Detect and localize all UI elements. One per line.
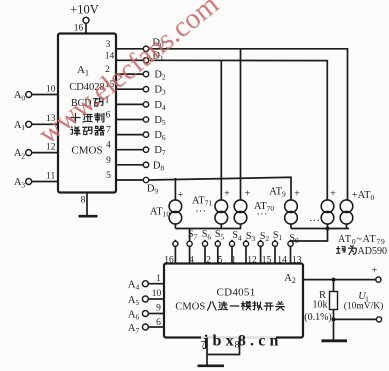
svg-text:10k: 10k (313, 300, 328, 311)
output D0 pin 3 of A1 (106, 38, 164, 52)
svg-text:9: 9 (106, 156, 111, 166)
sensor column 5 AD590 (321, 200, 334, 229)
output D1 pin 14 of A1 (105, 51, 164, 64)
svg-text:···: ··· (257, 209, 268, 221)
svg-text:+: + (294, 189, 300, 200)
junction at lower output (332, 317, 336, 321)
svg-text:16: 16 (74, 24, 84, 34)
svg-text:1: 1 (156, 274, 161, 284)
resistor R 10k 0.1% (304, 280, 337, 340)
ground below resistor (322, 339, 348, 342)
terminal S4 pin 1 of A2 (229, 230, 242, 265)
svg-text:jbx8.cn: jbx8.cn (202, 333, 283, 350)
svg-text:10: 10 (46, 84, 56, 94)
output D8 pin 9 of A1 (106, 156, 164, 173)
svg-text:+: + (330, 189, 336, 200)
output D2 pin 2 of A1 (105, 65, 166, 82)
plus marks of sensors (178, 189, 337, 202)
output terminal + (372, 266, 381, 283)
wire D0 branch to column 3 (240, 49, 242, 200)
svg-text:14: 14 (105, 51, 115, 61)
terminal S0 pin 13 of A2 (288, 233, 302, 265)
ground pins 7,8 of A2 (198, 338, 240, 366)
label shi-jin-zhi (decimal) (71, 113, 104, 122)
input terminal A2 pin 12 (14, 143, 58, 161)
input terminal A6 pin 9 of A2 (128, 304, 164, 322)
input terminal A0 pin 10 (14, 84, 58, 102)
svg-text:5: 5 (106, 171, 111, 181)
sensor AT71 (column 2) AD590 (215, 200, 228, 229)
sensor AT9 (column 4) AD590 (285, 200, 298, 229)
IC A2 CD4051 analog multiplexer (164, 264, 303, 338)
svg-text:CMOS: CMOS (71, 145, 102, 157)
svg-text:3: 3 (106, 40, 111, 50)
terminal S2 pin 15 of A2 (258, 231, 272, 265)
svg-text:4: 4 (106, 141, 111, 151)
svg-text:10: 10 (152, 289, 162, 299)
ground of A1 pin 8 (79, 193, 98, 217)
svg-text:···: ··· (195, 206, 206, 218)
terminal S7 pin 4 of A2 (187, 229, 197, 266)
svg-text:6: 6 (156, 318, 161, 328)
label BCD code (BCD ma) (71, 98, 103, 109)
wire D1 branch to column 2 (220, 61, 222, 200)
svg-text:(0.1%): (0.1%) (304, 312, 332, 323)
svg-text:+: + (224, 189, 230, 200)
label ba-xuan-yi-mo-ni-kai-guan (8ch analog switch) (208, 301, 285, 310)
+10V supply terminal (70, 3, 99, 34)
terminal VDD pin 16 of A2 (164, 240, 178, 265)
svg-text:+: + (372, 266, 378, 277)
svg-text:+10V: +10V (70, 3, 99, 17)
wire from right bus to S0 (291, 229, 328, 242)
input terminal A5 pin 10 of A2 (128, 289, 164, 307)
terminal S5 pin 5 of A2 (215, 229, 225, 265)
svg-text:+: + (178, 190, 184, 201)
svg-text:(10mV/K): (10mV/K) (344, 301, 384, 312)
sensor AT10 (column 1) AD590 (169, 200, 182, 229)
svg-text:CD4051: CD4051 (216, 287, 255, 299)
svg-text:8: 8 (235, 341, 240, 351)
sensor AT0 (column 6) AD590 (340, 200, 353, 229)
terminal S3 pin 12 of A2 (243, 231, 257, 265)
output D7 pin 4 of A1 (106, 141, 166, 158)
svg-text:AD590: AD590 (358, 246, 387, 257)
input terminal A1 pin 13 (14, 114, 58, 132)
svg-text:8: 8 (81, 196, 86, 206)
output D9 pin 5 of A1 (106, 171, 158, 196)
junction at resistor top (332, 278, 336, 282)
IC A1 CD4028 BCD decoder (58, 34, 116, 193)
wire D9 to sensor row (149, 177, 291, 200)
sensor AT70 (column 3) AD590 (234, 200, 247, 229)
input terminal A3 pin 11 (14, 172, 58, 190)
svg-text:7: 7 (106, 126, 111, 136)
label yi-ma-qi (decoder) (71, 126, 104, 135)
output wire of A2 (303, 279, 376, 281)
wire D1 bus to sensor columns (150, 60, 327, 200)
lower output wire (334, 318, 377, 320)
svg-text:9: 9 (156, 304, 161, 314)
decorative watermark (not labeled as circuit) (32, 0, 225, 150)
wire D9 branch to column 1 (174, 178, 176, 200)
svg-text:11: 11 (46, 172, 55, 182)
right sensor bus (291, 228, 349, 230)
svg-text:7: 7 (201, 341, 206, 351)
left sensor bus (175, 228, 241, 230)
note AT0~AT79 are AD590 (336, 234, 387, 257)
lower output terminal (376, 317, 381, 322)
output D5 pin 6 of A1 (106, 111, 166, 128)
svg-text:+: + (245, 189, 251, 200)
svg-text:CMOS: CMOS (175, 302, 205, 313)
label U1 (10mV/K) (344, 291, 384, 312)
svg-text:6: 6 (106, 111, 111, 121)
input terminal A4 pin 1 of A2 (128, 274, 164, 292)
terminal S6 pin 2 of A2 (202, 229, 212, 265)
watermark text jbx8.cn (201, 334, 276, 346)
output D3 pin 15 of A1 (105, 80, 166, 97)
svg-text:···: ··· (309, 215, 320, 227)
wire D0 bus to sensor columns (149, 49, 348, 200)
input terminal A7 pin 6 of A2 (128, 318, 164, 335)
output D6 pin 7 of A1 (106, 126, 166, 143)
output D4 pin 1 of A1 (105, 95, 166, 112)
junction at column 5 (326, 227, 330, 231)
terminal S1 pin 14 of A2 (272, 230, 287, 265)
